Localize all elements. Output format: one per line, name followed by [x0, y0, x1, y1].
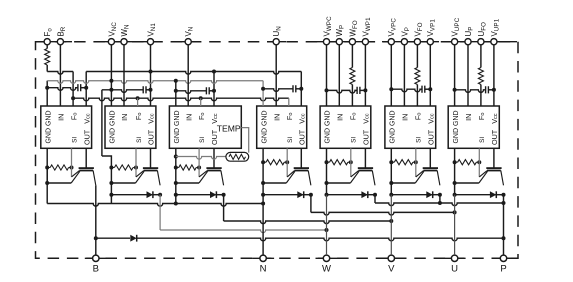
- wire VNC ground rail: [46, 81, 48, 106]
- svg-text:SI: SI: [351, 137, 358, 143]
- node Fo rail junction: [71, 96, 75, 100]
- top border solid segments between grouped terminals: [36, 41, 41, 43]
- wire emitter rail U3: [174, 181, 178, 185]
- wire thermistor to U3 GND: [174, 155, 178, 159]
- driver IC U5: [320, 106, 371, 148]
- driver IC U6: [385, 106, 436, 148]
- resistor R2 current sense: [109, 166, 113, 170]
- wire VN1 supply rail: [85, 72, 87, 107]
- wire U1 GND ext segment: [46, 168, 48, 184]
- resistor R4 current sense: [261, 160, 265, 164]
- wire emitter rail U6: [389, 181, 393, 185]
- wire U7 GND extension: [454, 148, 456, 162]
- terminal UFO: [478, 39, 484, 45]
- wire U3 GND extension: [175, 148, 177, 167]
- wire U riser: [454, 195, 456, 255]
- wire emitter rail U1: [45, 181, 49, 185]
- module dashed border: [36, 42, 519, 259]
- svg-text:GND GND: GND GND: [110, 110, 117, 143]
- terminal VN1: [147, 39, 153, 45]
- svg-text:SI: SI: [416, 137, 423, 143]
- driver IC U4: [257, 106, 307, 148]
- power terminal N: [260, 255, 266, 261]
- wire P-side collector bus: [374, 195, 376, 203]
- svg-text:V: V: [388, 264, 395, 275]
- svg-text:U: U: [451, 264, 458, 275]
- wire U2 GND extension to bus: [110, 195, 112, 204]
- wire U4 GND extension: [262, 148, 264, 162]
- svg-text:IN: IN: [57, 114, 66, 121]
- wire P-side control terminals to U6: [390, 45, 392, 106]
- terminal VUPC: [452, 39, 458, 45]
- svg-text:GND GND: GND GND: [453, 110, 460, 143]
- wire W-low collector rail: [159, 195, 161, 230]
- wire brake collector to B: [95, 185, 97, 255]
- svg-text:IN: IN: [336, 114, 345, 121]
- IGBT Q5 W-high: [364, 148, 366, 168]
- resistor U6 FO series: [415, 68, 420, 85]
- capacitor C5 supply decoupling rail: [327, 90, 358, 93]
- wire V riser: [390, 195, 392, 255]
- wire BR terminal to U1 IN: [59, 45, 61, 106]
- svg-text:OUT: OUT: [298, 129, 307, 145]
- svg-text:OUT: OUT: [82, 129, 91, 145]
- resistor R3 current sense: [174, 166, 178, 170]
- svg-text:OUT: OUT: [362, 129, 371, 145]
- driver IC U2: [105, 106, 156, 148]
- diode D4 freewheel: [261, 193, 265, 197]
- svg-text:GND GND: GND GND: [325, 110, 332, 143]
- wire U2 ground bypass: [101, 90, 103, 156]
- svg-text:GND GND: GND GND: [261, 110, 268, 143]
- node VNC at ground rail: [109, 79, 113, 83]
- node VN1 at rail: [149, 70, 153, 74]
- wire 5 FO terminal: [351, 45, 353, 68]
- IGBT Q2 W-low: [150, 148, 152, 168]
- wire VN terminal to U3 IN: [187, 45, 189, 106]
- terminal UP: [465, 39, 471, 45]
- terminal VFO: [414, 39, 420, 45]
- node ground rail at U3: [174, 79, 178, 83]
- wire U3 TEMP to thermistor: [241, 128, 248, 153]
- node supply rail to U3 Vcc: [212, 70, 216, 74]
- terminal WFO: [349, 39, 355, 45]
- wire 7 FO terminal: [480, 45, 482, 68]
- resistor R7 current sense: [453, 160, 457, 164]
- wire U6 SI sense line: [415, 148, 417, 162]
- IGBT Q4 U-low: [300, 148, 302, 168]
- wire WN terminal to U2 IN: [123, 45, 125, 106]
- svg-text:B: B: [93, 264, 99, 275]
- capacitor C1 supply decoupling rail: [47, 88, 78, 91]
- driver IC U1: [41, 106, 92, 148]
- capacitor C6 supply decoupling rail: [391, 89, 422, 92]
- svg-text:OUT: OUT: [490, 129, 499, 145]
- power terminal B: [93, 255, 99, 261]
- diode D7 freewheel: [453, 193, 457, 197]
- node Fo rail at U3: [199, 96, 203, 100]
- terminal VN: [185, 39, 191, 45]
- wire 6 FO terminal: [416, 45, 418, 68]
- terminal VUP1: [491, 39, 497, 45]
- wire common Fo rail: [73, 98, 289, 101]
- wire V-low collector rail: [223, 195, 225, 221]
- resistor Fo pull-up: [45, 49, 50, 66]
- power terminal P: [500, 255, 506, 261]
- wire U1 GND extension: [46, 148, 48, 167]
- svg-text:IN: IN: [272, 114, 281, 121]
- svg-text:SI: SI: [71, 137, 78, 143]
- svg-text:OUT: OUT: [147, 129, 156, 145]
- wire P-side control terminals to U5: [326, 45, 328, 106]
- IGBT Q7 U-high: [493, 148, 495, 168]
- wire W riser: [326, 195, 328, 255]
- wire P-side control terminals to U7: [454, 45, 456, 106]
- node Fo rail at U2: [136, 96, 140, 100]
- diode D6 freewheel: [389, 193, 393, 197]
- svg-text:SI: SI: [479, 137, 486, 143]
- terminal VWPC: [323, 39, 329, 45]
- wire U2 SI sense line: [135, 148, 137, 167]
- wire emitter rail U2: [109, 181, 113, 185]
- terminal VVP1: [427, 39, 433, 45]
- svg-text:IN: IN: [184, 114, 193, 121]
- svg-text:SI: SI: [287, 137, 294, 143]
- wire U5 SI sense line: [350, 148, 352, 162]
- svg-text:GND GND: GND GND: [45, 110, 52, 143]
- svg-text:N: N: [260, 264, 267, 275]
- diode D2 freewheel: [109, 193, 113, 197]
- wire Fo net to U1 Fo pin: [46, 65, 48, 72]
- capacitor C2 supply decoupling rail with bypass: [102, 90, 143, 93]
- wire N-side emitter bus to N: [46, 183, 48, 204]
- svg-text:SI: SI: [199, 137, 206, 143]
- wire UN terminal to U4 IN: [275, 45, 277, 106]
- wire emitter rail U5: [325, 181, 329, 185]
- svg-text:SI: SI: [136, 137, 143, 143]
- svg-text:IN: IN: [401, 114, 410, 121]
- wire U3 GND extension to bus: [175, 195, 177, 204]
- IGBT Q3 V-low: [213, 148, 215, 168]
- driver IC U7: [448, 106, 499, 148]
- resistor R5 current sense: [325, 160, 329, 164]
- wire U1 SI sense line: [71, 148, 73, 167]
- diode D3 freewheel: [174, 193, 178, 197]
- thermistor TH1: [226, 152, 249, 161]
- wire U6 GND extension: [390, 148, 392, 162]
- wire VNC terminal drop: [110, 45, 112, 106]
- wire VN1 terminal drop: [150, 45, 152, 106]
- wire Fo terminal to pull-up resistor: [46, 45, 48, 49]
- wire U7 SI sense line: [478, 148, 480, 162]
- wire U4 SI sense line: [286, 148, 288, 162]
- resistor R1 current sense: [45, 166, 49, 170]
- wire emitter rail U4: [261, 181, 265, 185]
- IGBT Q6 V-high: [429, 148, 431, 168]
- terminal BR: [57, 39, 63, 45]
- svg-text:OUT: OUT: [427, 129, 436, 145]
- IGBT Q1 brake: [85, 148, 87, 168]
- wire U5 GND extension: [326, 148, 328, 162]
- resistor U7 FO series: [478, 68, 483, 85]
- capacitor C7 supply decoupling rail: [455, 90, 486, 93]
- capacitor C4 supply decoupling rail: [263, 89, 293, 92]
- power terminal U: [451, 255, 457, 261]
- power terminal V: [388, 255, 394, 261]
- power terminal W: [323, 255, 329, 261]
- svg-text:GND GND: GND GND: [390, 110, 397, 143]
- wire P riser: [503, 195, 505, 255]
- svg-text:IN: IN: [120, 114, 129, 121]
- terminal WN: [121, 39, 127, 45]
- terminal VNC: [108, 39, 114, 45]
- wire N riser: [262, 195, 264, 255]
- terminal UN: [273, 39, 279, 45]
- terminal Fo: [44, 39, 50, 45]
- wire V-high collector drop: [439, 195, 441, 203]
- resistor U5 FO series: [350, 68, 355, 85]
- driver IC U3: [169, 106, 241, 148]
- svg-text:GND GND: GND GND: [174, 110, 181, 143]
- terminal WP: [336, 39, 342, 45]
- svg-text:W: W: [322, 264, 331, 275]
- diode D8 brake to P: [96, 237, 130, 239]
- wire emitter rail U7: [453, 181, 457, 185]
- diode D5 freewheel: [325, 193, 329, 197]
- bottom border solid segments at power terminals: [85, 257, 107, 259]
- svg-text:IN: IN: [464, 114, 473, 121]
- terminal VWP1: [362, 39, 368, 45]
- capacitor C3 supply decoupling rail: [176, 91, 207, 94]
- wire U3 SI sense line: [198, 148, 200, 167]
- terminal VP: [401, 39, 407, 45]
- svg-text:TEMP: TEMP: [217, 123, 241, 133]
- wire U-low collector rail: [310, 195, 312, 213]
- svg-text:P: P: [500, 264, 506, 275]
- resistor R6 current sense: [389, 160, 393, 164]
- terminal VVPC: [388, 39, 394, 45]
